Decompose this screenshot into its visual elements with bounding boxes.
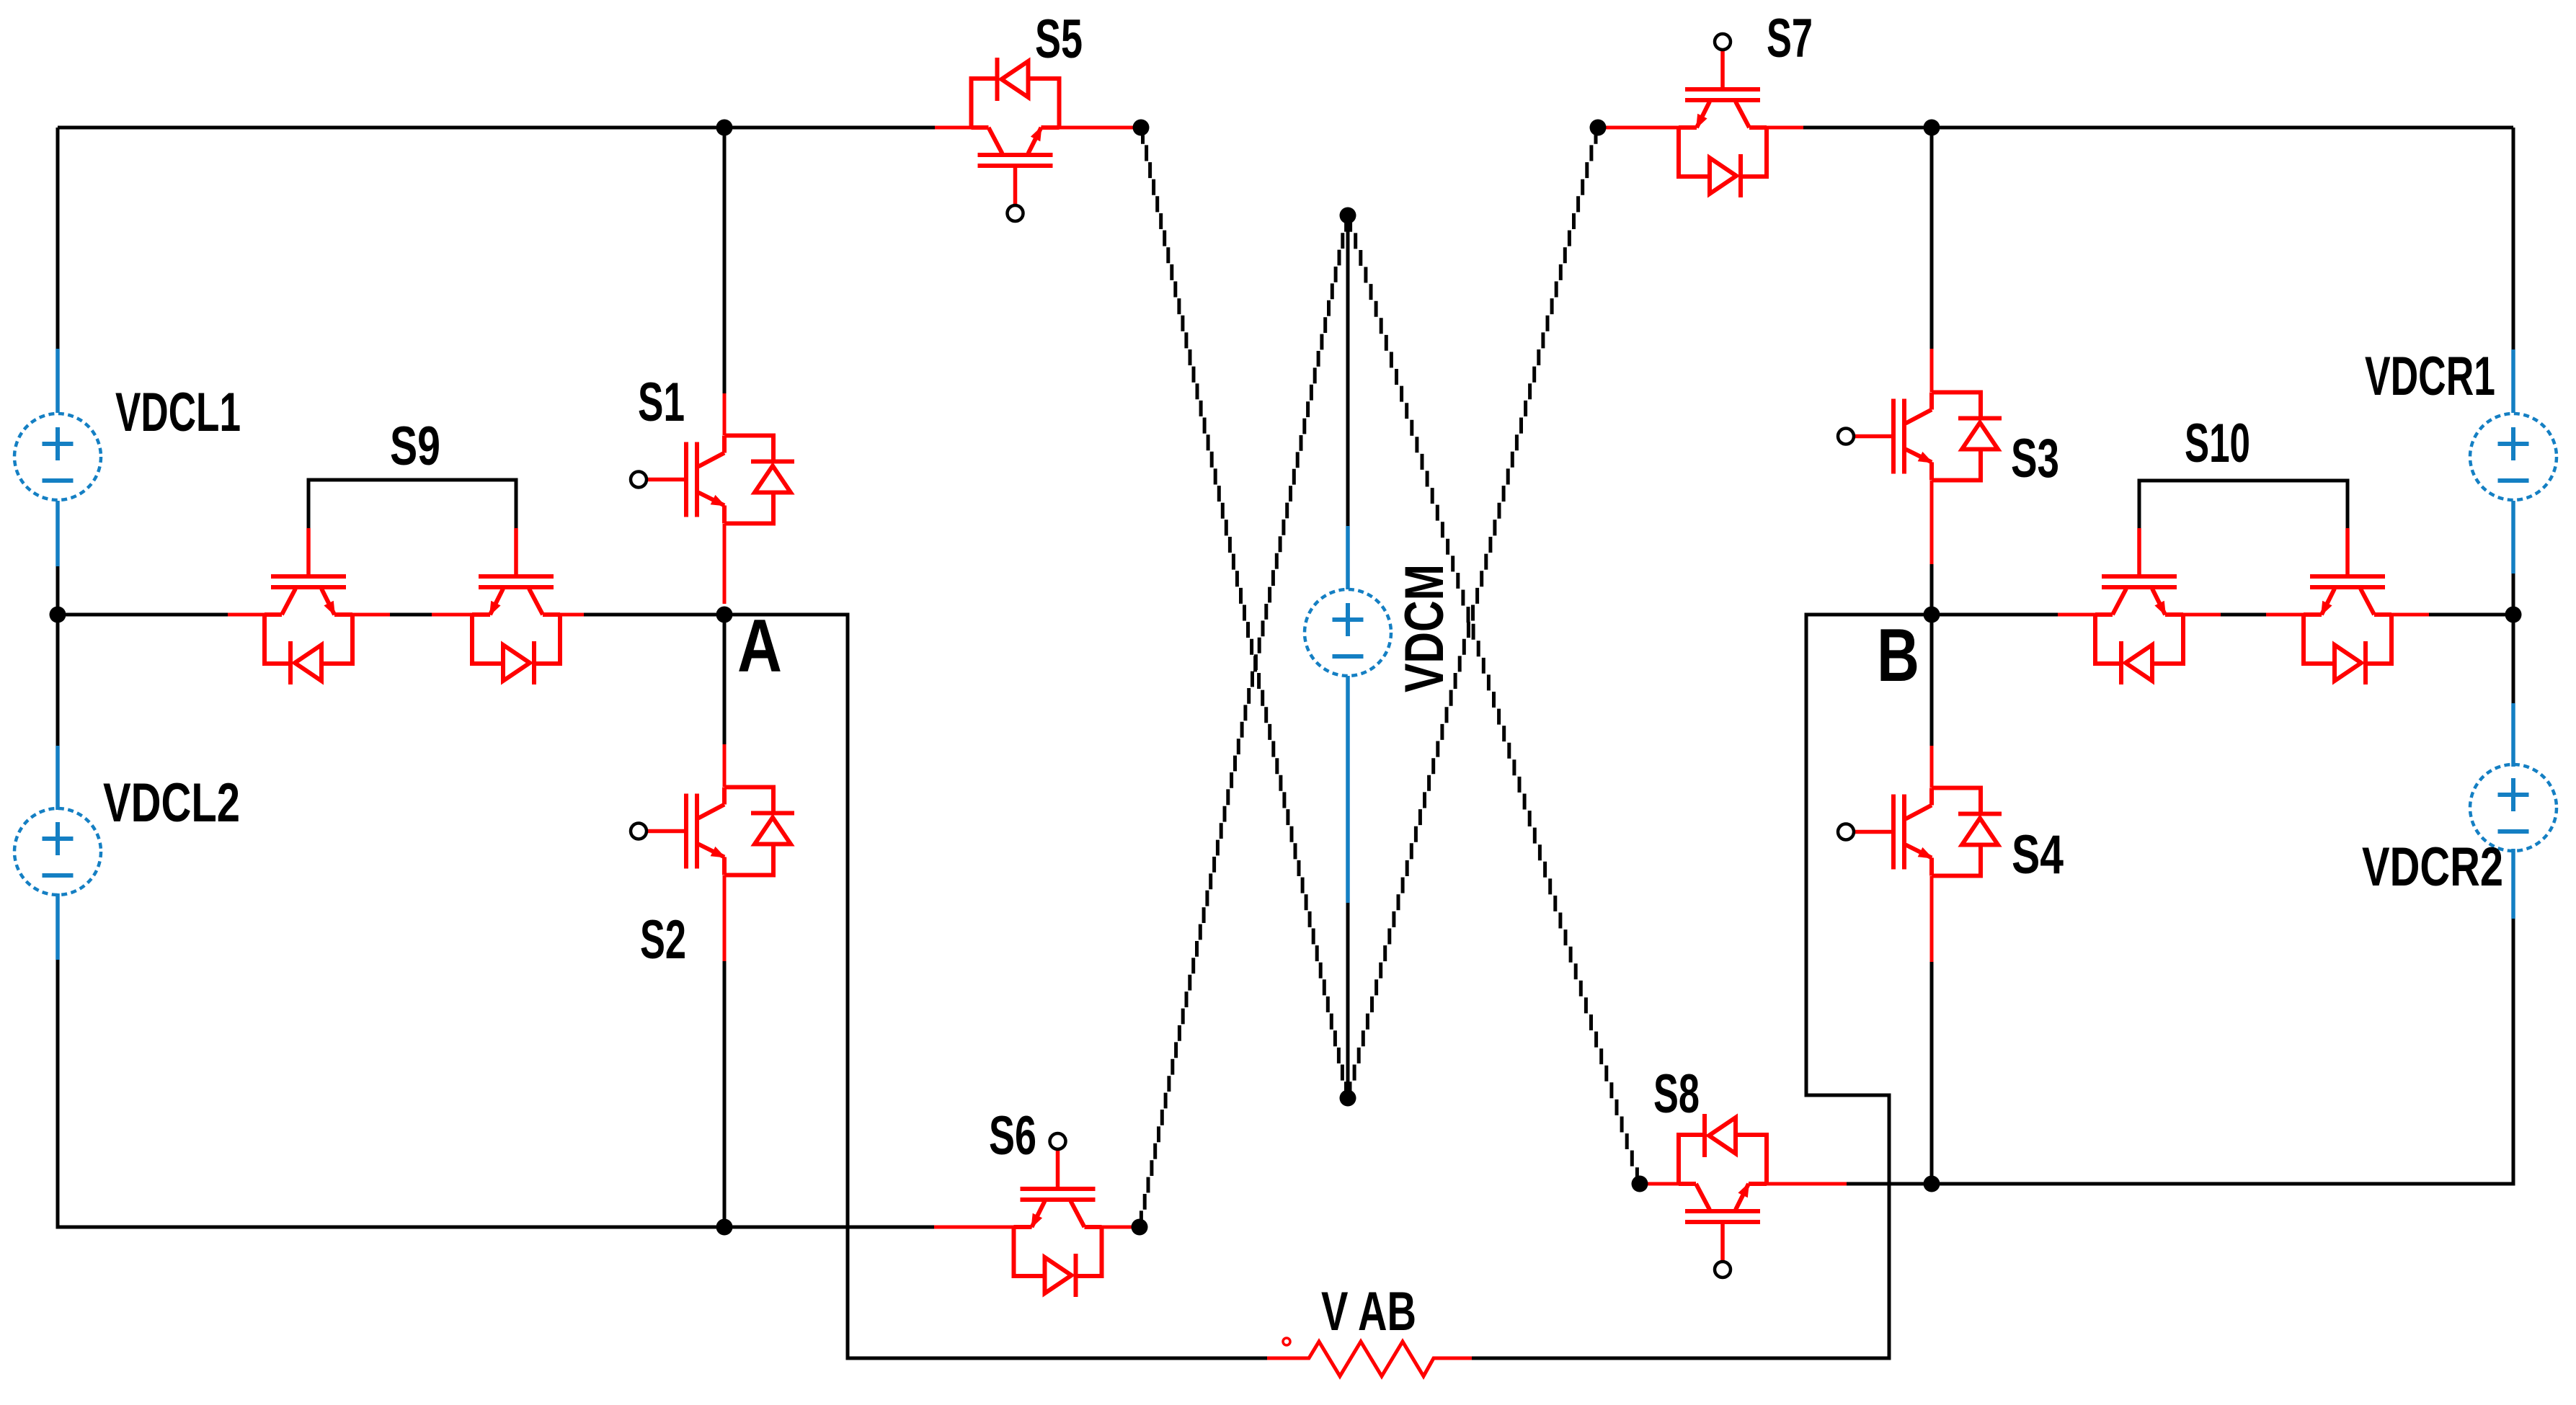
svg-text:S8: S8 [1653, 1063, 1700, 1125]
svg-text:VDCM: VDCM [1394, 564, 1455, 692]
svg-text:S9: S9 [390, 416, 440, 477]
svg-text:VDCL1: VDCL1 [115, 382, 241, 443]
svg-text:S7: S7 [1767, 8, 1813, 69]
svg-text:S5: S5 [1035, 9, 1083, 70]
svg-text:S4: S4 [2012, 824, 2064, 886]
svg-text:B: B [1877, 614, 1919, 697]
svg-text:VDCR2: VDCR2 [2362, 837, 2503, 898]
svg-text:S1: S1 [638, 372, 685, 433]
svg-text:VDCL2: VDCL2 [103, 772, 240, 834]
svg-text:S10: S10 [2185, 413, 2250, 474]
svg-text:A: A [737, 605, 782, 688]
svg-text:V AB: V AB [1321, 1281, 1416, 1342]
svg-text:S6: S6 [989, 1105, 1036, 1167]
svg-text:S3: S3 [2011, 428, 2059, 489]
svg-text:S2: S2 [640, 909, 686, 971]
svg-text:VDCR1: VDCR1 [2365, 346, 2495, 407]
